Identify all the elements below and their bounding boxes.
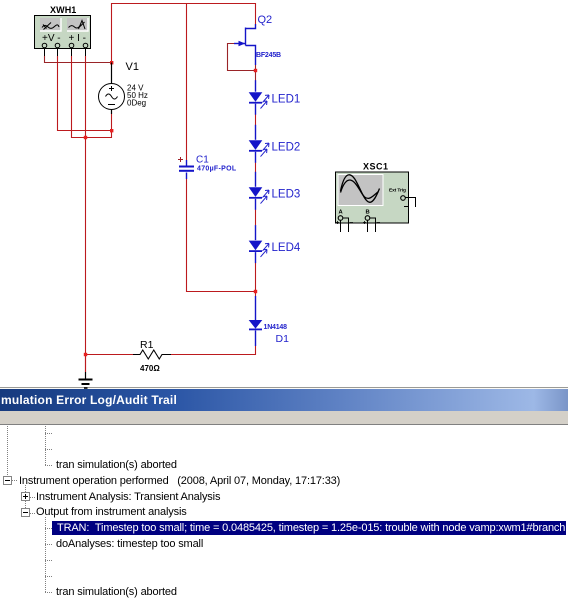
junction Q2 source loop <box>254 69 257 72</box>
svg-text:1N4148: 1N4148 <box>264 324 288 331</box>
wire I+ terminal to V1 bottom node <box>72 56 112 138</box>
svg-text:XWH1: XWH1 <box>50 5 76 15</box>
svg-text:470µF-POL: 470µF-POL <box>197 166 237 173</box>
error log / audit trail panel <box>0 387 568 601</box>
svg-text:+ I -: + I - <box>69 33 87 44</box>
resistor R1 <box>133 339 171 373</box>
junction LED string / C1 <box>254 290 257 293</box>
oscilloscope XSC1 <box>336 162 416 233</box>
ground <box>79 372 93 388</box>
wire D1 to R1 <box>171 346 256 355</box>
junction V1 bottom <box>110 129 113 132</box>
wire LED3 to LED4 <box>255 210 257 226</box>
svg-text:D1: D1 <box>276 333 290 345</box>
wire R1 to ground node <box>86 355 134 373</box>
svg-text:XSC1: XSC1 <box>363 162 389 172</box>
svg-text:R1: R1 <box>140 339 154 351</box>
wire I- terminal down to bottom node <box>85 56 87 372</box>
wire V+ terminal to V1 top node <box>45 56 112 63</box>
svg-text:0Deg: 0Deg <box>127 99 146 108</box>
svg-text:V1: V1 <box>126 61 139 73</box>
junction ground node <box>84 353 87 356</box>
wire Q2 gate-source loop <box>228 44 256 81</box>
LED3 <box>249 172 301 210</box>
wire C1 top branch <box>186 4 188 161</box>
svg-text:LED1: LED1 <box>272 94 301 106</box>
junction V1 top <box>110 61 113 64</box>
wire V- terminal to V1 bottom node <box>58 56 112 131</box>
wire LED2 to LED3 <box>255 163 257 172</box>
diode D1 <box>249 296 289 346</box>
svg-text:+V -: +V - <box>42 33 61 44</box>
transistor Q2 (JFET) <box>234 14 281 65</box>
capacitor C1 <box>178 155 237 180</box>
wire LED4 to D1 <box>255 263 257 296</box>
svg-text:LED2: LED2 <box>272 142 301 154</box>
svg-text:LED3: LED3 <box>272 189 301 201</box>
LED1 <box>249 80 301 115</box>
svg-text:470Ω: 470Ω <box>140 364 160 373</box>
svg-text:Q2: Q2 <box>258 14 273 26</box>
wire V1 bottom pin to node <box>111 114 113 131</box>
LED4 <box>249 225 301 263</box>
svg-text:Ext Trig: Ext Trig <box>389 188 406 194</box>
svg-text:LED4: LED4 <box>272 242 301 254</box>
wattmeter XWH1 <box>35 5 91 56</box>
wire C1 bottom to LED string node <box>187 179 256 292</box>
junction I- crossing <box>84 136 87 139</box>
AC source V1 <box>99 61 148 114</box>
svg-text:B: B <box>366 210 370 216</box>
wire top rail V1 to Q2 drain <box>112 4 256 63</box>
LED2 <box>249 125 301 163</box>
tree <box>7 426 8 476</box>
svg-text:BF245B: BF245B <box>256 52 281 59</box>
wire LED1 to LED2 <box>255 115 257 126</box>
svg-text:C1: C1 <box>196 155 209 166</box>
